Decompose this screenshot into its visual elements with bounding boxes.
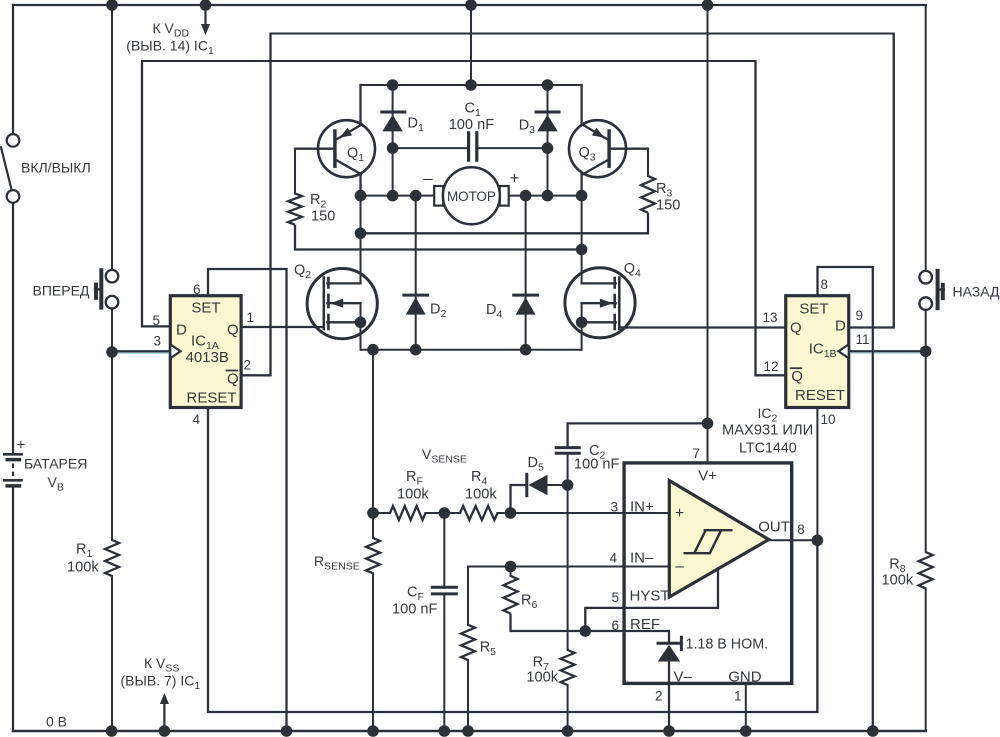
svg-text:100 nF: 100 nF (574, 456, 620, 472)
svg-text:8: 8 (821, 277, 829, 292)
svg-text:2: 2 (244, 358, 252, 373)
svg-text:НАЗАД: НАЗАД (953, 283, 1000, 299)
svg-text:Q: Q (227, 370, 239, 387)
svg-text:IN–: IN– (630, 550, 654, 567)
svg-text:D: D (835, 317, 846, 334)
svg-text:RESET: RESET (187, 389, 237, 406)
svg-text:IN+: IN+ (630, 499, 654, 516)
svg-text:100 nF: 100 nF (392, 602, 438, 618)
svg-text:100k: 100k (465, 486, 497, 502)
svg-text:+: + (675, 505, 684, 522)
svg-text:2: 2 (655, 689, 663, 704)
svg-text:БАТАРЕЯ: БАТАРЕЯ (24, 456, 87, 472)
svg-text:МОТОР: МОТОР (447, 189, 496, 204)
svg-text:150: 150 (656, 198, 680, 214)
svg-text:GND: GND (728, 668, 762, 685)
svg-text:RESET: RESET (795, 387, 845, 404)
svg-text:LTC1440: LTC1440 (739, 441, 797, 457)
svg-text:–: – (675, 558, 684, 575)
svg-text:+: + (510, 170, 520, 188)
svg-text:3: 3 (610, 500, 618, 515)
svg-text:10: 10 (821, 412, 836, 427)
svg-text:Q: Q (227, 321, 239, 338)
svg-text:100k: 100k (526, 669, 558, 685)
svg-text:REF: REF (630, 616, 660, 633)
svg-text:V+: V+ (698, 468, 717, 485)
svg-text:SET: SET (799, 300, 828, 317)
svg-text:11: 11 (856, 332, 870, 347)
svg-text:ВКЛ/ВЫКЛ: ВКЛ/ВЫКЛ (21, 160, 91, 176)
svg-text:4013B: 4013B (186, 349, 229, 366)
svg-text:6: 6 (193, 282, 201, 297)
svg-text:0 В: 0 В (46, 714, 67, 730)
svg-text:150: 150 (311, 209, 335, 225)
svg-text:100k: 100k (67, 560, 99, 576)
svg-text:1: 1 (247, 310, 255, 325)
svg-text:5: 5 (611, 590, 619, 605)
svg-text:13: 13 (763, 310, 778, 325)
svg-text:100k: 100k (397, 486, 429, 502)
svg-text:ВПЕРЕД: ВПЕРЕД (33, 282, 90, 298)
svg-text:6: 6 (611, 618, 619, 633)
svg-text:4: 4 (193, 412, 201, 427)
svg-text:5: 5 (153, 313, 161, 328)
svg-text:12: 12 (764, 359, 779, 374)
svg-text:D: D (176, 321, 187, 338)
svg-text:100k: 100k (882, 573, 914, 589)
svg-text:–: – (423, 169, 433, 187)
svg-text:7: 7 (692, 446, 700, 461)
svg-text:SET: SET (191, 299, 220, 316)
svg-text:4: 4 (609, 551, 617, 566)
svg-text:+: + (17, 437, 26, 454)
svg-text:1: 1 (734, 689, 742, 704)
svg-text:HYST: HYST (630, 587, 670, 604)
svg-text:Q: Q (790, 319, 802, 336)
svg-text:МАХ931 ИЛИ: МАХ931 ИЛИ (722, 423, 813, 439)
svg-text:Q: Q (791, 368, 803, 385)
svg-text:9: 9 (856, 308, 864, 323)
svg-text:3: 3 (154, 334, 162, 349)
svg-text:8: 8 (797, 522, 805, 537)
svg-text:V–: V– (674, 668, 693, 685)
svg-text:1.18 В НОМ.: 1.18 В НОМ. (686, 636, 769, 652)
svg-text:OUT: OUT (758, 518, 790, 535)
svg-text:100 nF: 100 nF (449, 117, 495, 133)
